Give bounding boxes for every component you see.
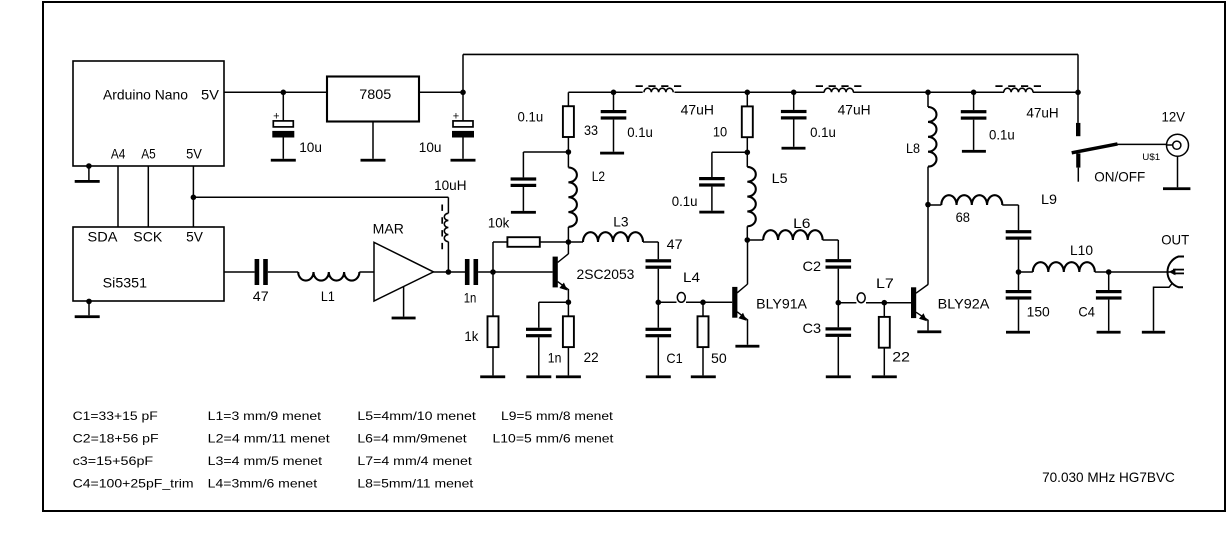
svg-text:C4=100+25pF_trim: C4=100+25pF_trim: [73, 477, 194, 491]
capacitor C4: [1096, 290, 1122, 293]
wire 22-2 lead: [883, 303, 885, 317]
wire switch to 12V jack: [1118, 143, 1167, 145]
junction 150/L10 node: [1016, 269, 1022, 275]
wire C3 gnd stem: [837, 337, 839, 376]
svg-text:150: 150: [1027, 304, 1050, 320]
svg-text:L7=4 mm/4 menet: L7=4 mm/4 menet: [357, 454, 472, 468]
wire 0.1u to ground: [522, 187, 524, 211]
svg-text:10uH: 10uH: [434, 177, 466, 193]
wire cap to out node: [1018, 240, 1020, 272]
transistor Q1 2SC2053: [553, 257, 558, 288]
svg-text:U$1: U$1: [1142, 152, 1160, 163]
wire L7 to node: [866, 302, 884, 304]
capacitor C2: [826, 259, 852, 262]
wire 12V jack ground stem: [1177, 156, 1179, 187]
wire Arduino 5V to 7805: [224, 91, 327, 93]
wire C2 to node: [837, 269, 839, 303]
svg-text:OUT: OUT: [1161, 231, 1189, 247]
ground Si5351: [75, 315, 100, 318]
capacitor 1n (emitter): [526, 328, 552, 331]
switch lever: [1072, 144, 1118, 153]
svg-text:47uH: 47uH: [1026, 104, 1058, 120]
capacitor 0.1u (BLY91 stage): [699, 177, 725, 180]
ground 0.1u BLY91 stage: [699, 211, 724, 214]
svg-text:BLY91A: BLY91A: [756, 296, 807, 312]
switch contact bottom: [1076, 153, 1080, 167]
junction 0.1u rail 3: [971, 90, 977, 96]
wire bias node riser: [492, 242, 494, 316]
wire 10k right lead: [540, 241, 569, 243]
wire Arduino ground stem: [88, 166, 90, 180]
svg-text:22: 22: [584, 349, 599, 365]
capacitor L9 series cap: [1006, 230, 1032, 233]
wire node to L10: [1019, 271, 1033, 273]
inductor L10: [1033, 262, 1095, 272]
wire 10uH bottom lead: [447, 242, 449, 272]
inductor 47uH choke 3: [1004, 88, 1033, 92]
svg-text:MAR: MAR: [373, 220, 404, 236]
ground BLY91A emitter: [735, 345, 759, 348]
capacitor 0.1u rail3: [973, 92, 975, 110]
wire switch stub: [1077, 168, 1079, 182]
wire SCK (A5): [147, 166, 149, 227]
inductor L4 loop: [677, 293, 685, 303]
wire 150 gnd stem: [1018, 300, 1020, 331]
svg-text:L7: L7: [876, 275, 894, 291]
svg-text:A5: A5: [141, 145, 156, 161]
resistor 1k: [488, 316, 499, 347]
wire rail2 seg3: [853, 91, 1004, 93]
ground 0.1u rail3: [962, 150, 986, 153]
wire C4 vert: [1108, 272, 1110, 290]
ground 22 base BLY92A: [872, 375, 897, 378]
svg-text:0.1u: 0.1u: [810, 124, 836, 140]
svg-text:47: 47: [253, 288, 269, 304]
svg-text:L1: L1: [321, 288, 335, 304]
wire 50 gnd stem: [702, 347, 704, 375]
svg-text:0.1u: 0.1u: [989, 127, 1015, 143]
svg-text:L9: L9: [1041, 191, 1057, 207]
ground BLY92A emitter: [917, 330, 941, 333]
wire 12V drop to switch: [1077, 54, 1079, 123]
wire to L7: [838, 302, 856, 304]
switch contact top: [1076, 123, 1080, 136]
svg-text:C4: C4: [1078, 304, 1095, 320]
svg-text:47uH: 47uH: [681, 102, 714, 118]
ground 22 emitter 1: [556, 375, 581, 378]
svg-text:47: 47: [667, 236, 683, 252]
capacitor 47 series: [255, 259, 260, 285]
wire 1n to base: [478, 271, 552, 273]
junction 22 node: [882, 300, 888, 306]
ground 10u right: [451, 159, 476, 162]
wire 0.1u branch horiz: [523, 151, 568, 153]
wire 150 vert: [1018, 272, 1020, 290]
svg-text:0.1u: 0.1u: [672, 193, 698, 209]
wire cap47 to L1: [268, 271, 298, 273]
svg-text:70.030 MHz HG7BVC: 70.030 MHz HG7BVC: [1042, 469, 1175, 485]
junction 50 node: [700, 300, 706, 306]
svg-text:C1=33+15 pF: C1=33+15 pF: [73, 409, 158, 423]
transistor Q3 BLY92A: [911, 287, 916, 318]
wire 12V riser at 7805: [462, 54, 464, 92]
wire Si5351 ground stem: [88, 301, 90, 315]
ground 50: [691, 375, 716, 378]
IC Arduino Nano box: [73, 61, 224, 166]
inductor L2: [567, 152, 569, 168]
junction emitter node: [566, 299, 572, 305]
inductor L5: [746, 152, 748, 167]
svg-text:5V: 5V: [186, 145, 202, 161]
junction Si5351 ground: [86, 299, 92, 305]
ground OUT: [1142, 331, 1165, 334]
svg-text:68: 68: [956, 209, 971, 225]
wire 1k ground stem: [492, 347, 494, 375]
inductor 10uH choke: [444, 213, 448, 241]
wire base BLY92A: [884, 302, 911, 304]
wire rail2 corner to R33: [567, 92, 569, 106]
wire SDA (A4): [117, 166, 119, 227]
svg-text:10u: 10u: [299, 139, 322, 155]
junction 5V branch: [191, 195, 197, 201]
svg-text:SCK: SCK: [133, 229, 163, 245]
ground 0.1u rail2: [782, 147, 806, 150]
wire 50 lead: [702, 302, 704, 316]
svg-text:1n: 1n: [464, 289, 477, 305]
inductor L3: [583, 232, 643, 242]
connector OUT symbol: [1167, 257, 1184, 288]
inductor L7 loop: [857, 293, 865, 303]
capacitor C1: [646, 328, 672, 331]
inductor 47uH choke 1: [644, 88, 673, 92]
wire rail2 seg4: [1033, 91, 1078, 93]
ground MAR: [392, 317, 416, 320]
wire 7805 output to 12V corner: [419, 91, 463, 93]
wire C3 vert: [837, 303, 839, 328]
junction bias node: [490, 269, 496, 275]
wire 47 cap to node: [657, 269, 659, 303]
svg-text:A4: A4: [111, 145, 126, 161]
wire to L4: [658, 301, 676, 303]
wire 22 gnd stem: [567, 347, 569, 375]
inductor 47uH choke 2: [824, 88, 853, 92]
junction collector node 2SC2053: [566, 239, 572, 245]
svg-text:ON/OFF: ON/OFF: [1094, 169, 1145, 185]
wire 10uH top lead: [447, 197, 449, 213]
connector 12V jack: [1167, 134, 1189, 156]
wire 22 lead: [567, 302, 569, 316]
op-amp MAR triangle: [374, 242, 434, 301]
junction 0.1u rail 1: [611, 90, 617, 96]
junction 0.1u rail 2: [791, 90, 797, 96]
junction R10 rail: [745, 90, 751, 96]
wire 22-2 gnd stem: [883, 348, 885, 376]
svg-text:L6=4 mm/9menet: L6=4 mm/9menet: [357, 432, 467, 446]
svg-text:2SC2053: 2SC2053: [577, 266, 635, 282]
inductor L1: [298, 272, 359, 281]
wire L5 node to L6: [747, 239, 763, 241]
IC 7805 box: [327, 77, 419, 122]
svg-text:12V: 12V: [1162, 108, 1186, 124]
capacitor 0.1u (2SC stage): [511, 177, 537, 180]
svg-text:L6: L6: [793, 215, 811, 231]
junction switch rail: [1075, 90, 1081, 96]
resistor 33: [563, 106, 574, 137]
ground 0.1u (2SC stage): [511, 211, 536, 214]
junction R10/L5/0.1u: [745, 150, 751, 156]
ground 150: [1006, 331, 1030, 334]
svg-text:1k: 1k: [464, 328, 479, 344]
junction 10u left: [281, 90, 287, 96]
wire 5V pin: [192, 166, 194, 227]
svg-text:L2: L2: [592, 168, 605, 184]
svg-text:10: 10: [713, 123, 727, 139]
svg-text:7805: 7805: [359, 86, 391, 102]
wire base BLY91A: [703, 301, 732, 303]
wire L3 to 47 cap: [643, 241, 658, 243]
ground Arduino: [75, 180, 100, 183]
svg-text:5V: 5V: [201, 86, 220, 102]
wire 5V to 10uH: [193, 196, 448, 198]
svg-text:10k: 10k: [488, 214, 510, 230]
capacitor C3: [826, 327, 852, 330]
svg-text:0.1u: 0.1u: [627, 124, 653, 140]
ground C3: [826, 375, 851, 378]
svg-text:L8: L8: [906, 140, 920, 156]
junction L8 rail: [925, 90, 931, 96]
ground 10u left: [271, 159, 296, 162]
svg-text:SDA: SDA: [88, 229, 119, 245]
ground 0.1u rail1: [600, 152, 624, 155]
svg-text:22: 22: [892, 348, 910, 364]
svg-text:C3: C3: [803, 320, 822, 336]
svg-text:33: 33: [584, 122, 598, 138]
wire L6 to C2: [823, 239, 839, 241]
svg-text:L10: L10: [1070, 242, 1093, 258]
wire collector to L3: [568, 241, 583, 243]
svg-text:L9=5 mm/8 menet: L9=5 mm/8 menet: [501, 409, 614, 423]
wire R10 to node: [746, 137, 748, 153]
svg-text:L1=3 mm/9 menet: L1=3 mm/9 menet: [208, 409, 322, 423]
wire 0.1u b91 vert: [711, 152, 713, 177]
svg-text:50: 50: [711, 350, 727, 366]
wire 10k left lead: [493, 241, 507, 243]
wire C4 gnd stem: [1108, 300, 1110, 331]
svg-text:BLY92A: BLY92A: [938, 295, 990, 311]
wire OUT ground tail: [1154, 284, 1172, 331]
wire L10 to C4 node: [1095, 271, 1109, 273]
svg-text:L8=5mm/11 menet: L8=5mm/11 menet: [357, 477, 474, 491]
svg-text:L5: L5: [772, 170, 788, 186]
junction C4 node: [1106, 269, 1112, 275]
resistor 10k: [507, 237, 539, 247]
wire 0.1u b91 gnd stem: [711, 187, 713, 211]
capacitor 150: [1006, 290, 1032, 293]
junction MAR out / 10uH: [446, 269, 452, 275]
svg-text:Si5351: Si5351: [103, 274, 148, 290]
junction R33/L2/0.1u: [566, 149, 572, 155]
wire 7805 ground stem: [372, 122, 374, 159]
junction Arduino ground: [86, 163, 92, 169]
svg-text:L4: L4: [683, 269, 700, 285]
junction L8/68 coil: [925, 202, 931, 208]
svg-text:c3=15+56pF: c3=15+56pF: [73, 454, 154, 468]
transistor Q2 BLY91A: [732, 287, 737, 318]
svg-text:47uH: 47uH: [838, 102, 871, 118]
wire C1 gnd stem: [657, 337, 659, 375]
junction C2/C3/L7: [836, 300, 842, 306]
resistor 22 (emitter 1): [563, 316, 574, 347]
inductor L8: [927, 92, 929, 107]
wire to OUT connector: [1109, 271, 1170, 273]
ground 12V jack: [1163, 187, 1190, 190]
svg-text:Arduino Nano: Arduino Nano: [103, 86, 188, 102]
capacitor 0.1u rail2: [793, 92, 795, 110]
svg-text:L2=4 mm/11 menet: L2=4 mm/11 menet: [208, 432, 331, 446]
ground C4: [1097, 331, 1121, 334]
wire R33 to node: [567, 137, 569, 152]
capacitor 1n series: [465, 259, 470, 285]
inductor 68 (L9 coil): [941, 195, 1002, 205]
wire L8 node to 68 coil: [928, 204, 941, 206]
IC Si5351 box: [73, 227, 224, 301]
svg-text:C2: C2: [803, 258, 822, 274]
wire rail2 seg2: [675, 91, 825, 93]
svg-text:L5=4mm/10 menet: L5=4mm/10 menet: [357, 409, 476, 423]
svg-text:0.1u: 0.1u: [518, 109, 544, 125]
resistor 50: [698, 316, 709, 347]
svg-text:5V: 5V: [186, 229, 203, 245]
svg-text:L4=3mm/6 menet: L4=3mm/6 menet: [208, 477, 318, 491]
wire 1n emitter gnd stem: [538, 337, 540, 375]
svg-text:L3: L3: [613, 213, 629, 229]
wire L1 to MAR: [359, 271, 374, 273]
wire 68 coil to cap: [1002, 204, 1018, 206]
resistor 22 (base BLY92A): [879, 317, 890, 348]
wire 12V top rail: [463, 53, 1078, 55]
ground C1: [646, 375, 671, 378]
ground 1k: [480, 375, 505, 378]
wire L4 to node: [686, 301, 703, 303]
wire 1n emitter vert: [538, 302, 540, 328]
wire C1 vert: [657, 302, 659, 327]
wire emitter to 1n cap: [539, 301, 569, 303]
svg-text:C1: C1: [666, 350, 682, 366]
wire MAR ground stem: [403, 287, 405, 317]
wire 0.1u branch vert: [522, 152, 524, 177]
inductor L6: [763, 230, 822, 240]
wire 0.1u b91 horiz: [712, 151, 747, 153]
junction 10u right: [460, 90, 466, 96]
svg-text:L3=4 mm/5 menet: L3=4 mm/5 menet: [208, 454, 323, 468]
wire Si5351 out: [224, 271, 255, 273]
wire rail2 seg1: [568, 91, 642, 93]
ground 1n emitter: [526, 375, 551, 378]
svg-text:C2=18+56 pF: C2=18+56 pF: [73, 432, 159, 446]
svg-text:1n: 1n: [548, 349, 562, 365]
resistor 10: [746, 92, 748, 106]
junction L5/L6/collector: [745, 237, 751, 243]
svg-text:L10=5 mm/6 menet: L10=5 mm/6 menet: [493, 432, 615, 446]
ground 7805: [361, 159, 386, 162]
junction C1 node: [656, 300, 662, 306]
capacitor 0.1u rail1: [613, 92, 615, 110]
svg-text:10u: 10u: [419, 139, 442, 155]
capacitor 47 shunt: [646, 259, 672, 262]
wire MAR output: [434, 271, 467, 273]
